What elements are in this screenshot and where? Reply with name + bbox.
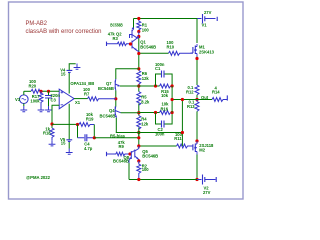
- wire bottom rail: [129, 179, 197, 181]
- ground V5 supply: [66, 149, 73, 155]
- svg-text:R11: R11: [174, 136, 182, 141]
- wire Q7 base / Q4 base rail: [115, 91, 117, 107]
- voltage source V4 op-amp positive supply: [60, 64, 80, 94]
- svg-text:V3: V3: [15, 97, 21, 102]
- node R4 bottom: [137, 131, 140, 134]
- wire upper RC input: [139, 85, 160, 87]
- node out tap: [171, 98, 174, 101]
- border frame (decorative): [9, 2, 244, 199]
- node R6 top: [137, 67, 140, 70]
- svg-text:R7: R7: [84, 92, 90, 97]
- resistor R12 0.1: [186, 85, 199, 95]
- resistor R1 100: [137, 19, 150, 33]
- node upper RC left: [154, 84, 157, 87]
- node lower RC right: [171, 111, 174, 114]
- node out drop top: [181, 98, 184, 101]
- ground V4 supply: [74, 64, 81, 70]
- node R2 top: [137, 159, 140, 162]
- resistor R15 10k: [160, 84, 171, 98]
- svg-text:10k: 10k: [161, 93, 169, 98]
- svg-text:R12: R12: [186, 90, 194, 95]
- svg-text:100n: 100n: [155, 132, 165, 137]
- wire M1 source down: [196, 57, 198, 86]
- svg-text:BC546B: BC546B: [100, 113, 116, 118]
- voltage source V1: [197, 10, 217, 27]
- transistor Q5 BC546B: [135, 146, 139, 161]
- svg-text:15: 15: [61, 141, 66, 146]
- node M1 source: [195, 57, 198, 60]
- node V2: [195, 178, 198, 181]
- resistor R13 0.1: [187, 100, 199, 112]
- wire Q1 emitter to R10: [139, 52, 169, 54]
- capacitor C3 220n: [45, 91, 60, 111]
- wire op-amp output: [74, 98, 87, 100]
- wire R4 bottom bias net: [116, 132, 183, 134]
- wire Q8 emitter to rail: [128, 163, 130, 180]
- resistor R10 100: [167, 40, 193, 55]
- svg-text:classAB with error correction: classAB with error correction: [26, 28, 103, 35]
- wire feedback tap: [52, 123, 78, 125]
- svg-text:100k: 100k: [30, 99, 40, 104]
- svg-text:100: 100: [142, 27, 150, 32]
- op-amp X1 OPA134: [59, 81, 94, 109]
- wire inverting input: [52, 105, 59, 128]
- wire error sense vertical: [171, 86, 173, 113]
- resistor R3 47k: [107, 42, 131, 46]
- ground R17: [38, 106, 45, 112]
- ground R18: [49, 140, 56, 146]
- svg-text:R18: R18: [43, 130, 51, 135]
- resistor R7 100: [83, 87, 116, 101]
- transistor Q2 BC556B: [130, 27, 139, 38]
- node R5 bottom: [137, 111, 140, 114]
- node op-amp drive: [114, 97, 117, 100]
- resistor R9 47k: [107, 140, 131, 156]
- svg-text:27V: 27V: [203, 190, 211, 195]
- svg-text:OPA134_BB: OPA134_BB: [70, 81, 94, 86]
- wire Q2 emitter to rail: [133, 19, 135, 28]
- svg-text:12k: 12k: [141, 122, 149, 127]
- wire lower RC input: [139, 112, 160, 114]
- wire middle vertical bus: [138, 37, 140, 149]
- wire Q4 collector to R5 bottom: [121, 112, 139, 114]
- svg-text:R9: R9: [119, 144, 125, 149]
- wire R1 to Q2 collector: [138, 32, 140, 37]
- resistor R2 100: [137, 161, 150, 180]
- svg-text:C3: C3: [51, 98, 57, 103]
- wire feedback to bias net: [94, 133, 139, 138]
- node lower RC left: [154, 111, 157, 114]
- ground C3: [45, 106, 52, 112]
- wire Q5 collector to R11: [139, 145, 177, 147]
- wire R13 to M2 drain: [196, 111, 198, 141]
- svg-text:4.7p: 4.7p: [84, 146, 93, 151]
- svg-text:27V: 27V: [204, 10, 212, 15]
- resistor R11 100: [174, 132, 193, 148]
- node R1 bottom: [137, 30, 140, 33]
- node Q1 emitter: [137, 52, 140, 55]
- voltage source V2: [197, 175, 216, 196]
- svg-text:@PMA 2022: @PMA 2022: [26, 175, 51, 180]
- transistor Q7 BC546B: [115, 79, 120, 91]
- node R18 top: [50, 122, 53, 125]
- transistor Q8 BC546B: [129, 151, 135, 164]
- svg-text:Q4: Q4: [109, 108, 115, 113]
- input source V3: [15, 91, 28, 111]
- capacitor C1 100n: [155, 62, 172, 86]
- svg-text:12k: 12k: [142, 76, 150, 81]
- svg-text:PM-AB2: PM-AB2: [26, 20, 48, 27]
- node R1 top: [137, 17, 140, 20]
- wire input: [24, 90, 31, 92]
- resistor R4 12k: [137, 116, 149, 130]
- resistor R14 4: [212, 86, 227, 102]
- svg-text:BC546B: BC546B: [140, 45, 156, 50]
- capacitor C4 4.7p: [78, 125, 95, 151]
- svg-text:BC546B: BC546B: [98, 86, 114, 91]
- wire V1 to M1 drain: [196, 19, 198, 44]
- resistor R17 100k: [30, 91, 44, 111]
- svg-text:M2: M2: [199, 147, 205, 152]
- resistor R20 100: [29, 79, 43, 93]
- node Q2 collector: [137, 35, 140, 38]
- node R2 bottom: [137, 178, 140, 181]
- resistor R5 8.2k: [137, 92, 150, 106]
- resistor R18 1k: [43, 127, 55, 146]
- wire Out node: [172, 99, 212, 101]
- svg-text:R16: R16: [161, 107, 169, 112]
- svg-text:R10: R10: [167, 45, 175, 50]
- wire M2 source down: [196, 155, 198, 181]
- node bias net join: [181, 131, 184, 134]
- node Out: [195, 98, 198, 101]
- ground V3: [20, 106, 27, 112]
- svg-text:BC546B: BC546B: [113, 159, 129, 164]
- svg-text:R20: R20: [29, 84, 37, 89]
- node bias feedback: [137, 136, 140, 139]
- transistor M2 2SJ118: [191, 141, 214, 155]
- node Q1 base: [129, 42, 132, 45]
- svg-text:R19: R19: [86, 116, 94, 121]
- svg-text:8.2k: 8.2k: [141, 100, 150, 105]
- svg-text:V1: V1: [202, 22, 208, 27]
- svg-text:C1: C1: [155, 66, 161, 71]
- svg-text:2SK413: 2SK413: [199, 49, 215, 54]
- svg-text:BC556B: BC556B: [110, 22, 123, 27]
- node C4 right: [93, 136, 96, 139]
- wire Q7 emitter to R6 node: [120, 85, 139, 87]
- wire R20 to op-amp: [42, 90, 59, 92]
- svg-text:R3: R3: [113, 36, 119, 41]
- transistor Q1 BC546B: [131, 38, 139, 54]
- resistor R16 10k: [160, 102, 171, 115]
- svg-text:100: 100: [142, 167, 150, 172]
- wire Q7 collector: [116, 69, 139, 79]
- resistor R19 10k: [79, 112, 94, 127]
- voltage source V5 op-amp negative supply: [60, 104, 73, 154]
- node Q5 collector: [137, 144, 140, 147]
- wire R12 to Out node: [196, 95, 198, 100]
- node R6 bottom: [137, 84, 140, 87]
- wire out to gate net: [181, 100, 183, 147]
- wire Q4 emitter down: [115, 118, 117, 133]
- node C3 top: [47, 90, 50, 93]
- resistor R6 12k: [137, 71, 150, 87]
- svg-text:15: 15: [61, 71, 66, 76]
- wire top rail: [134, 18, 198, 20]
- node M2 drain: [195, 139, 198, 142]
- transistor Q4 BC546B: [115, 107, 121, 118]
- node R19 left: [76, 123, 79, 126]
- svg-text:BC546B: BC546B: [142, 153, 158, 158]
- node Q8 base: [128, 152, 131, 155]
- capacitor C2 100n: [155, 113, 172, 137]
- svg-text:R13: R13: [187, 104, 195, 109]
- svg-text:R14: R14: [212, 90, 220, 95]
- transistor M1 2SK413: [191, 44, 215, 57]
- node upper RC right: [171, 84, 174, 87]
- node R17 top: [39, 90, 42, 93]
- svg-text:X1: X1: [75, 100, 81, 105]
